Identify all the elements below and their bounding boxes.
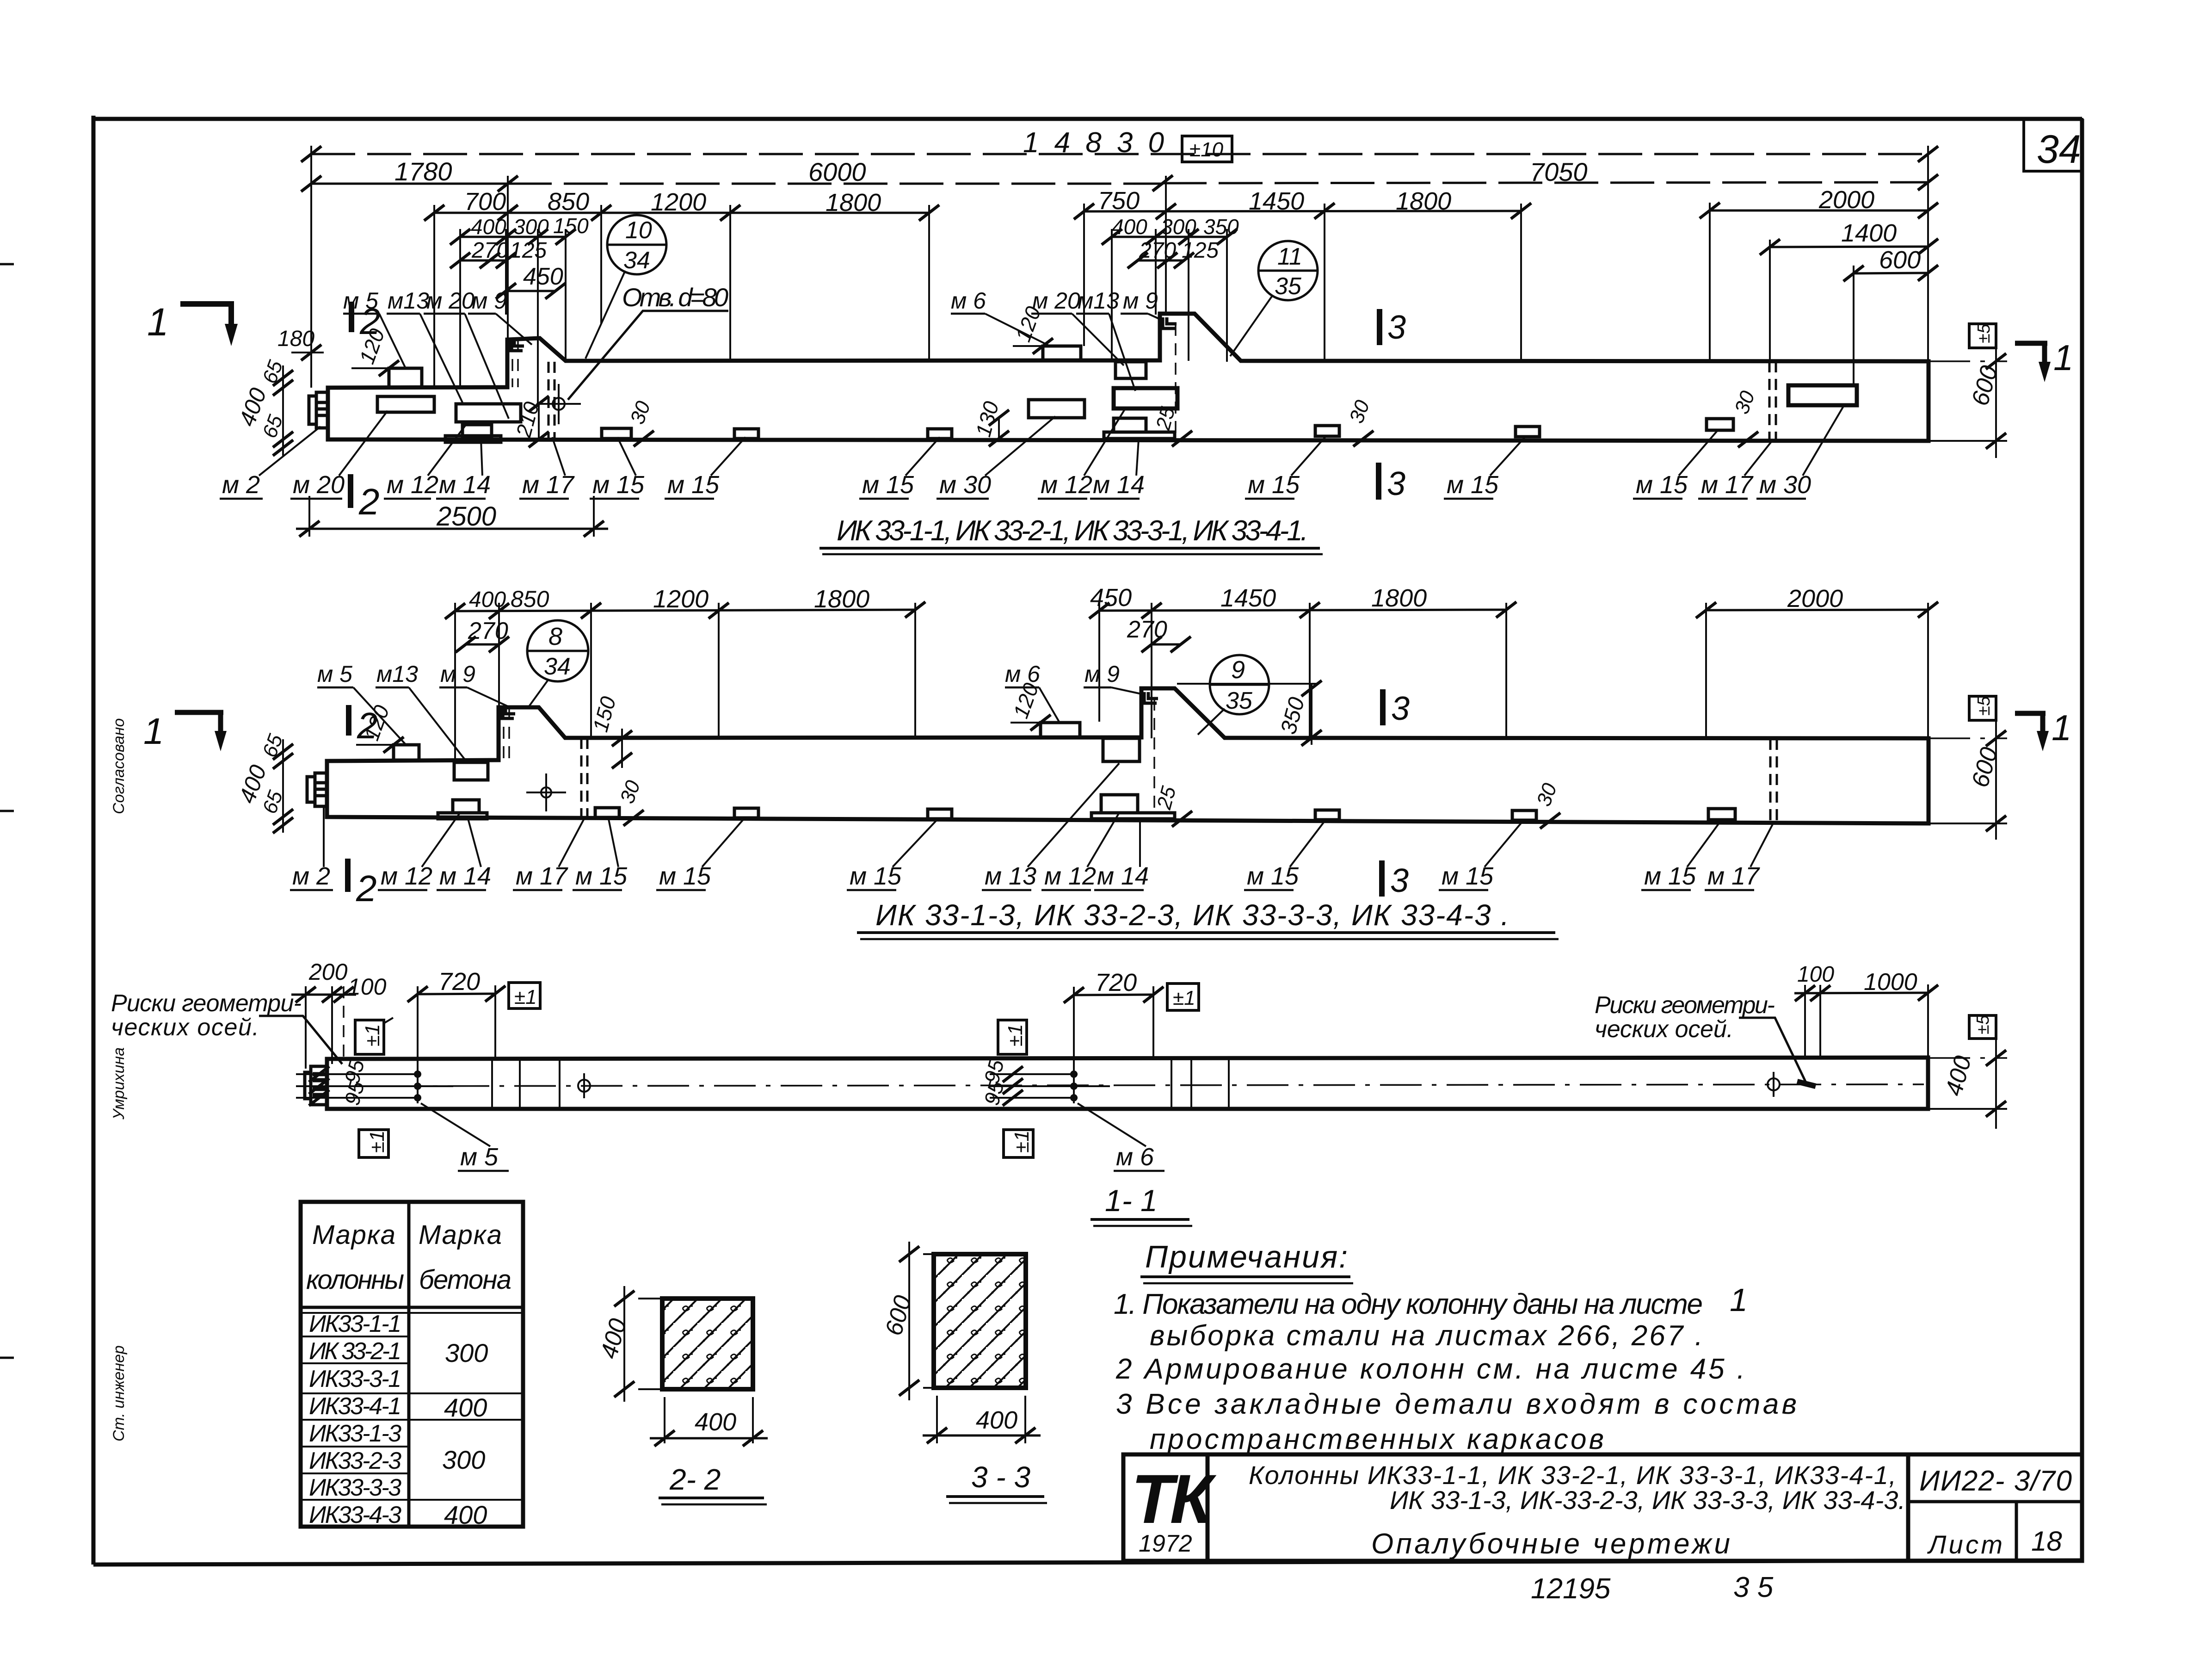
E2 top labels м6 м9 mid (1005, 661, 1146, 722)
E2 circle mark 8/34 (527, 620, 588, 707)
svg-text:850: 850 (548, 188, 589, 216)
E2 plate m13 hanging left (454, 762, 488, 780)
svg-text:18: 18 (2031, 1526, 2062, 1557)
svg-text:1800: 1800 (1396, 187, 1451, 215)
plan label m5 (421, 1103, 509, 1171)
E1 dim 25 at joint (1152, 404, 1192, 446)
E2 dim 270 mid (1127, 616, 1191, 652)
svg-text:ИК33-3-1: ИК33-3-1 (309, 1366, 401, 1392)
svg-text:2: 2 (359, 301, 381, 342)
E2 plate m14 base left (438, 813, 487, 819)
svg-text:3 - 3: 3 - 3 (971, 1460, 1030, 1494)
E1 joint hook bracket (1163, 317, 1177, 328)
svg-text:м 9: м 9 (472, 288, 507, 314)
svg-text:35: 35 (1226, 687, 1253, 714)
svg-text:ИК 33-1-3, ИК-33-2-3, ИК 33-3-: ИК 33-1-3, ИК-33-2-3, ИК 33-3-3, ИК 33-4… (1390, 1485, 1905, 1515)
svg-text:270: 270 (468, 618, 508, 644)
E2 hidden m17 left (581, 738, 587, 817)
svg-text:2000: 2000 (1787, 585, 1843, 612)
plan internal joint lines mid (1171, 1058, 1229, 1109)
svg-text:±1: ±1 (1010, 1130, 1033, 1153)
E2 console hook bracket (501, 707, 515, 718)
svg-text:1: 1 (2052, 707, 2071, 748)
E1 dim 30 d (1345, 397, 1374, 446)
E1 hidden lines m17 right (1769, 361, 1776, 441)
E1 console hook bracket m9 (510, 340, 524, 351)
svg-text:м13: м13 (1078, 288, 1119, 314)
E2 dim tier 400 850 1200 1800 (445, 585, 925, 619)
page number box 34 (2024, 119, 2082, 172)
svg-text:6000: 6000 (808, 157, 866, 186)
E2 dim tier right 2000 (1696, 585, 1938, 618)
E2 bottom plate m15 f (1708, 809, 1735, 820)
svg-text:±1: ±1 (514, 986, 537, 1008)
E2 hidden m17 right (1770, 739, 1777, 823)
E2 left vertical dims 65 400 65 (234, 731, 293, 833)
dim tier3 700 850 1200 1800 (424, 188, 939, 221)
E1 bottom plate m15 d (1315, 426, 1339, 436)
svg-text:м 9: м 9 (440, 661, 475, 687)
E2 bottom plate m15 e (1512, 810, 1536, 820)
svg-text:м 5: м 5 (460, 1143, 499, 1171)
caption 1-1 (1091, 1183, 1192, 1226)
E1 plate m5 on top of head (389, 368, 422, 387)
E2 bottom plate m15 b (734, 808, 758, 818)
svg-text:2- 2: 2- 2 (669, 1463, 721, 1496)
svg-text:400: 400 (444, 1500, 487, 1529)
E1 right 600 dim with ±5 (1929, 323, 2007, 458)
handwritten doc numbers (1531, 1571, 1774, 1605)
E2 bottom plate m15 d (1315, 810, 1339, 820)
svg-text:м 14: м 14 (1097, 862, 1149, 890)
plan end plate with teeth (305, 1066, 327, 1105)
svg-text:ИК 33-1-3, ИК 33-2-3, ИК 33-: ИК 33-1-3, ИК 33-2-3, ИК 33-3-3, ИК 33-4… (875, 898, 1509, 932)
E2 dim 150 step (588, 694, 632, 768)
E1 plate m13 (456, 404, 521, 422)
svg-text:1450: 1450 (1249, 187, 1304, 215)
svg-text:200: 200 (308, 959, 348, 985)
svg-text:850: 850 (511, 586, 549, 612)
svg-text:ИК 33-1-1, ИК 33-2-1, ИК 33-: ИК 33-1-1, ИК 33-2-1, ИК 33-3-1, ИК 33-4… (837, 515, 1308, 547)
svg-text:ИК33-1-1: ИК33-1-1 (309, 1311, 401, 1337)
E1 label Отв. d=80 (568, 283, 728, 400)
E1 left vertical dims 65 400 65 (234, 357, 293, 456)
svg-text:м 12: м 12 (381, 862, 432, 890)
E1 section cut 2 top (351, 301, 381, 342)
E2 label leaders (324, 763, 1774, 867)
dim tier5 270 125 (450, 238, 547, 268)
svg-text:1972: 1972 (1139, 1530, 1192, 1557)
svg-text:400: 400 (976, 1406, 1017, 1434)
left margin signature column (rotated) (110, 718, 128, 1441)
E1 caption ИК 33-1-1 ... (819, 515, 1323, 554)
E2 joint plate m14 base (1091, 813, 1175, 819)
svg-text:1: 1 (1730, 1282, 1748, 1318)
plan centerline (314, 1084, 1924, 1086)
svg-text:3: 3 (1387, 465, 1405, 502)
svg-text:Умрихина: Умрихина (110, 1047, 128, 1120)
svg-text:ИИ22- 3/70: ИИ22- 3/70 (1919, 1465, 2072, 1497)
svg-text:ческих осей.: ческих осей. (1595, 1016, 1733, 1043)
svg-text:м 6: м 6 (1116, 1143, 1154, 1171)
svg-text:±1: ±1 (1173, 987, 1195, 1009)
svg-text:100: 100 (348, 974, 387, 1000)
svg-text:400: 400 (1112, 215, 1147, 239)
svg-text:1: 1 (2053, 337, 2073, 378)
E1 section cut 3 top (1380, 309, 1406, 346)
svg-text:ИК33-4-3: ИК33-4-3 (309, 1502, 401, 1528)
plan riska lines m5 (296, 1057, 453, 1107)
svg-text:35: 35 (1275, 273, 1302, 300)
svg-text:1200: 1200 (653, 585, 709, 613)
svg-text:1400: 1400 (1841, 219, 1897, 247)
dim tier1 line 14830 (301, 127, 1938, 162)
plan dims 100 1000 right (1794, 962, 1938, 1001)
svg-text:колонны: колонны (306, 1265, 404, 1295)
E2 dim 30 a (616, 777, 645, 826)
svg-text:750: 750 (1098, 187, 1140, 215)
svg-text:3 5: 3 5 (1733, 1571, 1774, 1603)
svg-text:м 15: м 15 (592, 471, 645, 499)
svg-text:300: 300 (442, 1445, 485, 1474)
svg-text:7050: 7050 (1530, 157, 1588, 186)
svg-text:400: 400 (471, 215, 506, 239)
dim tier3 right 2000 (1700, 186, 1938, 218)
svg-text:ИК33-4-1: ИК33-4-1 (309, 1393, 401, 1420)
svg-text:Опалубочные чертежи: Опалубочные чертежи (1371, 1528, 1730, 1560)
E2 circle mark 9/35 (1198, 655, 1269, 735)
plan hole right (1768, 1072, 1780, 1097)
E2 dim 270 left (456, 618, 509, 652)
svg-text:180: 180 (277, 327, 314, 351)
dim tier5 right 600 (1843, 246, 1938, 281)
E1 plate m14 (445, 425, 501, 442)
E2 section cut 2 bottom (348, 859, 377, 909)
dim tier3 mid 750 1450 1800 (1074, 187, 1531, 219)
E2 right 600 dim ±5 (1929, 696, 2007, 840)
svg-text:Риски геометри-: Риски геометри- (111, 990, 302, 1017)
E2 dim 30 e (1532, 780, 1561, 829)
plan dim 720 mid (1064, 969, 1199, 1010)
dim tier4 400 300 150 (450, 214, 589, 245)
E1 end plate m2 (309, 392, 328, 428)
E2 bottom plate m15 a (595, 808, 619, 817)
svg-text:1000: 1000 (1864, 969, 1917, 996)
svg-text:400: 400 (695, 1408, 736, 1436)
E2 section mark 1 left (143, 711, 227, 752)
E2 plate m5 on head (394, 745, 419, 760)
E1 plate m30 left (1029, 400, 1084, 418)
svg-text:720: 720 (438, 968, 480, 996)
svg-text:125: 125 (510, 238, 547, 263)
E1 joint plate m14 (1104, 418, 1175, 439)
svg-text:±5: ±5 (1973, 1014, 1993, 1034)
svg-text:±5: ±5 (1974, 696, 1994, 716)
E2 label underlines (290, 889, 1754, 891)
E1 dim 30 f (1730, 388, 1759, 447)
svg-text:2 Армирование колонн см.: 2 Армирование колонн см. на листе 45 . (1115, 1353, 1745, 1385)
E1 bottom plate m15 e (1516, 427, 1540, 437)
E2 caption ИК 33-1-3 ... (857, 898, 1559, 939)
E1 hole Отв d=80 (536, 384, 581, 424)
svg-text:ИК 33-2-1: ИК 33-2-1 (309, 1338, 401, 1365)
E1 dim 180 top left (277, 327, 324, 360)
svg-text:1: 1 (143, 711, 164, 752)
E2 bottom plate m15 c (928, 809, 952, 819)
E2 dim 25 joint (1152, 784, 1192, 827)
dim tier2 line 1780 / 6000 / 7050 (301, 157, 1938, 192)
plan dim 720 left (407, 968, 540, 1008)
svg-text:м 14: м 14 (439, 862, 491, 890)
E2 top labels м5 м13 м9 (317, 661, 511, 762)
plan riski text right (1595, 992, 1816, 1086)
svg-text:Марка: Марка (419, 1220, 502, 1250)
plan riska lines m6 (979, 1057, 1110, 1107)
svg-text:1- 1: 1- 1 (1105, 1183, 1158, 1218)
svg-text:34: 34 (623, 247, 650, 274)
svg-text:1800: 1800 (826, 189, 881, 217)
svg-text:м 17: м 17 (522, 471, 575, 499)
E1 dim 2500 (296, 496, 608, 537)
E1 dim 30 a (626, 398, 655, 446)
svg-text:±1: ±1 (366, 1130, 388, 1153)
svg-text:11: 11 (1277, 243, 1302, 270)
svg-text:34: 34 (2037, 127, 2081, 172)
svg-text:350: 350 (1203, 215, 1239, 239)
E1 dim 120 at m5 (351, 325, 399, 376)
svg-text:ИК33-2-3: ИК33-2-3 (309, 1447, 401, 1474)
svg-text:ческих осей.: ческих осей. (111, 1014, 259, 1041)
plan riski text left (111, 990, 342, 1064)
E1 column outline (328, 314, 1929, 441)
svg-text:ИК33-1-3: ИК33-1-3 (309, 1420, 401, 1447)
svg-text:±1: ±1 (361, 1024, 384, 1046)
plan ±1 rotated boxes above bar (355, 1018, 1027, 1054)
svg-text:м 5: м 5 (317, 661, 352, 687)
E1 section mark 1 left (147, 300, 238, 346)
svg-text:1200: 1200 (651, 188, 706, 216)
E2 m6 step plate at joint (1041, 723, 1080, 738)
svg-text:±5: ±5 (1974, 323, 1994, 343)
svg-text:±10: ±10 (1189, 138, 1224, 161)
svg-text:2: 2 (357, 705, 378, 746)
svg-text:8: 8 (548, 623, 562, 650)
svg-text:1780: 1780 (394, 157, 452, 186)
E2 plate m12 left (453, 800, 479, 813)
dim tier4 mid 400 300 350 (1102, 215, 1239, 245)
E2 section mark 1 right (2015, 707, 2071, 751)
svg-text:ИК33-3-3: ИК33-3-3 (309, 1474, 401, 1501)
svg-text:300: 300 (445, 1338, 488, 1367)
extension lines E1 top dims (311, 146, 1928, 407)
E2 dim 120 at joint (1009, 680, 1051, 730)
svg-text:2: 2 (358, 481, 380, 522)
E1 bottom labels row (222, 471, 1811, 499)
E2 hole (526, 773, 566, 811)
E1 bottom plate m15 f (1707, 419, 1733, 430)
E2 end plate m2 (307, 773, 327, 806)
plan label m6 (1078, 1103, 1165, 1171)
E1 joint plate m12 (1114, 388, 1177, 408)
svg-text:450: 450 (523, 263, 563, 290)
svg-text:1800: 1800 (814, 585, 869, 613)
svg-text:Отв. d=80: Отв. d=80 (622, 283, 728, 312)
E2 extension lines top dims (455, 603, 1928, 761)
E2 joint plate m13 hanging (1103, 738, 1140, 761)
svg-text:м 12: м 12 (387, 471, 438, 499)
E2 section cut 2 top (349, 705, 378, 746)
svg-text:Согласовано: Согласовано (110, 718, 128, 814)
svg-text:м 9: м 9 (1084, 661, 1120, 687)
E1 dim 120 at joint step (1011, 303, 1053, 354)
svg-text:м 17: м 17 (516, 862, 568, 890)
E1 section mark 1 right (2015, 337, 2073, 382)
svg-text:450: 450 (1090, 584, 1132, 612)
svg-text:м 6: м 6 (1005, 661, 1040, 687)
E1 joint hidden line (1175, 324, 1176, 439)
svg-text:34: 34 (544, 653, 571, 680)
dim tier6 450 (496, 263, 566, 299)
plan dims 200 100 (291, 959, 387, 1002)
svg-text:2000: 2000 (1818, 186, 1874, 214)
E1 dim 130 at m30 (971, 399, 1009, 446)
E1 label underlines (220, 498, 1806, 500)
E1 bottom plate m15 a (602, 428, 631, 439)
E2 dim 120 at m5 (356, 702, 404, 753)
svg-text:Риски геометри-: Риски геометри- (1595, 992, 1775, 1019)
plan ±1 boxes below bar (359, 1130, 1033, 1157)
plan extension lines (306, 984, 1928, 1070)
svg-text:Ст. инженер: Ст. инженер (110, 1345, 128, 1441)
E1 bottom plate m15 c (928, 429, 952, 439)
svg-text:270: 270 (471, 238, 509, 263)
svg-text:м 15: м 15 (575, 862, 628, 890)
E1 plate m20 (377, 396, 434, 412)
svg-text:м13: м13 (376, 661, 418, 687)
svg-text:м 2: м 2 (222, 471, 260, 499)
E1 label leaders (259, 405, 1844, 476)
E1 section cut 2 bottom (351, 474, 380, 522)
plan internal joint lines left (492, 1059, 560, 1109)
E1 circle mark 10/34 (585, 215, 666, 359)
svg-text:270: 270 (1127, 616, 1167, 643)
E1 plate m30 right (1788, 385, 1857, 405)
svg-text:1450: 1450 (1220, 584, 1276, 612)
svg-text:ТК: ТК (1131, 1460, 1217, 1538)
E1 bottom plate m15 b (734, 429, 758, 439)
svg-text:1. Показатели на одну колон: 1. Показатели на одну колонну даны на ли… (1114, 1288, 1703, 1320)
svg-text:±1: ±1 (1004, 1024, 1027, 1046)
E2 joint hook bracket (1144, 692, 1158, 703)
svg-text:600: 600 (1879, 246, 1921, 274)
E1 console hidden edge (512, 340, 518, 387)
svg-text:270: 270 (1139, 238, 1176, 263)
svg-text:1800: 1800 (1371, 584, 1427, 612)
svg-text:300: 300 (513, 215, 549, 239)
svg-text:м13: м13 (388, 288, 429, 314)
E1 hidden lines m17 left (548, 362, 555, 439)
svg-text:м 20: м 20 (1032, 288, 1080, 314)
svg-text:100: 100 (1797, 962, 1834, 987)
svg-text:3: 3 (1387, 309, 1406, 346)
E1 dim 210 at hole (511, 396, 549, 447)
fold marks on paper edge (0, 264, 14, 1358)
svg-text:125: 125 (1182, 238, 1219, 263)
svg-text:м 9: м 9 (1123, 288, 1158, 314)
plan right 400 dim ±5 (1929, 1014, 2007, 1129)
E1 section cut 3 bottom (1379, 463, 1405, 502)
E1 top labels м5 м13 м20 м9 (343, 288, 532, 419)
svg-text:2500: 2500 (436, 501, 496, 532)
svg-text:3: 3 (1390, 862, 1409, 899)
E2 section cut 3 bottom (1382, 860, 1409, 899)
svg-text:м 20: м 20 (293, 471, 345, 499)
svg-text:бетона: бетона (419, 1265, 511, 1295)
svg-text:9: 9 (1231, 656, 1245, 684)
E2 dim 350 at joint diagonal (1177, 680, 1322, 746)
svg-text:150: 150 (553, 214, 589, 238)
dim tier5 mid 270 125 (1128, 238, 1219, 268)
svg-text:700: 700 (464, 188, 506, 216)
svg-text:400: 400 (444, 1393, 487, 1422)
svg-text:720: 720 (1095, 969, 1137, 996)
plan bar outline (327, 1058, 1928, 1109)
E1 m6 step plate at joint (1043, 346, 1081, 361)
E1 joint plate m13b (1115, 362, 1146, 378)
svg-text:3: 3 (1391, 690, 1410, 727)
dim tier4 right 1400 (1760, 219, 1938, 255)
E2 section cut 3 top (1383, 689, 1410, 727)
E2 dim tier mid 450 1450 1800 (1089, 584, 1516, 619)
svg-text:1: 1 (147, 300, 169, 344)
svg-text:м 30: м 30 (939, 471, 991, 499)
E2 joint plate m12 (1101, 795, 1138, 813)
svg-text:пространственных каркасов: пространственных каркасов (1150, 1423, 1604, 1455)
E1 top labels м6 м20 м13 м9 (mid) (951, 288, 1164, 391)
E2 bottom labels row (292, 862, 1760, 890)
svg-text:10: 10 (625, 217, 652, 244)
E1 circle mark 11/35 (1230, 241, 1318, 356)
plan hole left (578, 1073, 590, 1098)
svg-text:м 20: м 20 (426, 288, 474, 314)
sheet frame border (93, 116, 2082, 1565)
svg-text:2: 2 (356, 868, 377, 909)
svg-text:12195: 12195 (1531, 1573, 1611, 1605)
svg-text:400: 400 (469, 588, 506, 612)
svg-text:Марка: Марка (312, 1220, 395, 1250)
E2 column outline (327, 688, 1929, 823)
svg-text:м 17: м 17 (1707, 862, 1760, 890)
svg-text:м 6: м 6 (951, 288, 986, 314)
